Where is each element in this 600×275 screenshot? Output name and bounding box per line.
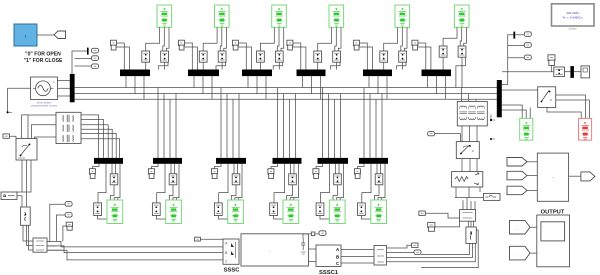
label SSSC1 [319, 270, 339, 275]
wire to tag Ib [56, 215, 65, 241]
terminator tick [87, 48, 89, 55]
bus bar B1-1 [120, 70, 150, 77]
switch block SW2 [456, 142, 479, 159]
T1 winding row 2 [63, 125, 74, 132]
wires B2-5 to scope [320, 164, 343, 203]
goto tag L1 [548, 55, 555, 72]
wire T1 out 5 [81, 133, 116, 158]
wires breakers to bus bar [203, 62, 225, 69]
mux block MX3 [460, 210, 476, 222]
wires SC1 to breakers [146, 27, 169, 51]
ground node [7, 111, 13, 113]
stubs B1-1 to bus lines [126, 76, 144, 99]
wires to green scope right [502, 105, 530, 118]
scope block SC2 (top) [215, 5, 230, 27]
scope block SB1 (bottom) [107, 200, 123, 224]
goto tag OUT [581, 172, 595, 181]
svg-text:B: B [336, 254, 339, 259]
wire converter to SSSC1 a [309, 248, 317, 250]
tag RS2 [428, 221, 460, 231]
drops bus to B2-2 [158, 88, 176, 158]
wire RLC right link [455, 197, 484, 199]
demux block DM1 [33, 238, 47, 252]
breaker Q2b [218, 51, 226, 62]
wire B7 to SW3 [502, 89, 538, 91]
drops bus to B2-3 [221, 88, 239, 158]
transformer T2 body [457, 101, 487, 126]
ground node right [490, 115, 495, 122]
wires T2 top to bus [462, 88, 477, 102]
series RLC branch left [1, 192, 17, 199]
breaker QB1 [94, 203, 108, 219]
wire source left to ground [8, 88, 31, 111]
long wire to measurement 4 [421, 230, 478, 268]
measurement block M1 [21, 207, 31, 225]
goto tag M2t [414, 250, 421, 255]
goto tag M1t [412, 243, 418, 247]
breaker QL4 [289, 164, 297, 185]
wires SC5 to breakers [384, 27, 407, 51]
breaker Q4b [333, 51, 341, 62]
tag under B2-6 [354, 164, 364, 179]
wire T1 out 4 [81, 129, 112, 158]
wire M1 down B [27, 225, 34, 245]
bus bar B1-4 [297, 70, 326, 77]
switch block SW3 [538, 87, 556, 108]
series RLC branch right [484, 193, 501, 200]
From tag F1 [510, 220, 531, 234]
svg-text:C: C [225, 260, 228, 264]
wire node to tag [315, 233, 319, 235]
breaker QR1 [554, 67, 571, 77]
tag under B2-2 [148, 164, 158, 179]
bus bar B2-1 [94, 158, 123, 164]
wire selector to tag [569, 175, 581, 177]
wire bus B to SSSC [47, 246, 223, 253]
wires MX3 up [463, 198, 475, 210]
breaker Q6b [458, 46, 466, 57]
tag RS1 [419, 211, 460, 218]
scope block SB4 (bottom) [283, 200, 299, 224]
wire T1 out 6 [81, 139, 120, 158]
ground node right 2 [490, 138, 495, 140]
long wire to measurement 1 [421, 243, 469, 254]
wires SC2 to breakers [203, 27, 226, 51]
wire bus C to SSSC [47, 250, 223, 260]
wire T1 out 2 [81, 120, 104, 158]
scope block SB2 (bottom) [166, 200, 182, 224]
goto tag Ib [65, 213, 72, 218]
output scope block [537, 215, 570, 267]
wire SSSC1 B [341, 256, 374, 258]
goto tag Vb [92, 56, 99, 61]
goto tag Ic [66, 222, 72, 230]
terminator bar right [570, 66, 574, 78]
breaker Q6a [439, 46, 447, 57]
mux block MX2 [374, 246, 387, 266]
wire tag T2 to bus [184, 43, 197, 70]
From tag G1 [507, 158, 537, 167]
T2 winding col 1 [459, 106, 467, 120]
wire to tag Ia [50, 204, 65, 241]
display label [569, 26, 578, 30]
breaker Q5a [380, 51, 388, 62]
wire F1 to scope [530, 226, 537, 228]
drops bus to B2-5 [323, 88, 341, 158]
breaker QL1 [110, 164, 118, 185]
wire tag T3 to bus [238, 43, 251, 70]
wire M1 down C [29, 225, 33, 250]
wires resistor block down [456, 187, 480, 198]
stubs B1-6 to bus lines [428, 76, 446, 99]
wire B7 up branch [502, 35, 511, 85]
wire BRK-L down B [26, 160, 28, 207]
wire T1 out 1 [81, 115, 99, 158]
bus bar B1-3 [242, 70, 272, 77]
svg-text:+: + [53, 80, 55, 84]
scope red right [579, 118, 592, 140]
wire source phase A [58, 80, 71, 82]
wire MX2 to tag1 [387, 245, 412, 248]
svg-text:-: - [60, 34, 61, 38]
drops bus to B2-6 [364, 88, 382, 158]
scope block SC1 (top) [157, 5, 172, 27]
scope block SB5 (bottom) [329, 200, 345, 224]
long wire to measurement 2 [387, 243, 473, 257]
wire F2 to scope [530, 252, 537, 254]
wires B2-2 to scope [157, 164, 179, 203]
wire tag T4 to bus [293, 43, 306, 70]
breaker Q3a [257, 51, 265, 62]
goto tag T3 [232, 40, 238, 50]
load block right [574, 66, 590, 78]
stubs B1-2 to bus lines [194, 76, 212, 99]
terminator tick right [511, 32, 516, 39]
transformer T1 body [56, 112, 81, 143]
goto tag T4 [287, 40, 293, 50]
svg-text:Te + -0.04862 n: Te + -0.04862 n [562, 15, 583, 19]
wire tag T5 to bus [359, 43, 372, 70]
wires SC3 to breakers [260, 27, 283, 51]
svg-text:o: o [472, 149, 474, 153]
svg-text:SSSC: SSSC [224, 267, 241, 273]
wire bus A to SSSC [47, 241, 223, 247]
tag under B2-4 [268, 164, 278, 179]
wire B1 to tag Vb [75, 58, 92, 60]
wire RLC to M1 [17, 196, 22, 207]
tag under B2-1 [89, 164, 99, 179]
drops bus to B2-4 [278, 88, 296, 158]
wires breakers to bus bar [384, 62, 406, 69]
SSSC1 block [316, 245, 341, 267]
breaker Q3b [275, 51, 283, 62]
goto tag mid-right [428, 132, 461, 142]
bus line phase B [75, 93, 497, 95]
source label [31, 100, 58, 107]
scope block SB3 (bottom) [228, 200, 244, 224]
breaker QB3 [214, 203, 228, 219]
breaker QL2 [169, 164, 177, 185]
stubs B1-5 to bus lines [369, 76, 387, 99]
breaker QB6 [358, 203, 372, 219]
wire tag T1 to bus [116, 43, 129, 70]
wires B2-6 to scope [362, 164, 385, 203]
wires breakers to bus bar [260, 62, 282, 69]
wire source phase B [58, 87, 71, 89]
goto tag R1t [515, 32, 531, 37]
goto tag Vc [92, 64, 99, 69]
T1 winding row 3 [63, 135, 74, 142]
scope selector block [537, 153, 568, 201]
breaker QL5 [334, 164, 342, 185]
goto tag R2t [508, 43, 532, 48]
wires SC4 to breakers [318, 27, 341, 51]
wire T1 tap [22, 115, 29, 139]
wires SC6 to breakers [443, 27, 466, 46]
wire SSSC1 A [341, 249, 374, 251]
tag under B2-3 [211, 164, 221, 179]
wire SSSC1 C [341, 262, 374, 264]
svg-text:SSSC1: SSSC1 [319, 270, 339, 275]
bus line phase C [75, 98, 497, 100]
breaker Q4a [314, 51, 322, 62]
three-phase source U1 [31, 77, 58, 100]
wire M1 down A [23, 225, 33, 241]
wire constant to goto tag [37, 34, 54, 36]
svg-text:OUTPUT: OUTPUT [541, 209, 565, 215]
bus bar B7 [497, 80, 502, 117]
bus bar B2-6 [359, 158, 388, 164]
wires B2-3 to scope [219, 164, 242, 203]
display block [552, 4, 595, 26]
tag under B2-5 [313, 164, 323, 179]
three-phase breaker BRK-L [16, 139, 37, 161]
goto tag R3t [508, 55, 532, 60]
constant block (breaker command) [14, 24, 37, 46]
bus bar B2-5 [318, 158, 349, 164]
wires breakers to bus bar [146, 62, 168, 69]
breaker Q1a [142, 51, 150, 62]
goto tag DC [319, 231, 326, 236]
stubs B1-4 to bus lines [303, 76, 321, 99]
wire converter to SSSC1 b [309, 261, 317, 263]
measurement block M2 [466, 227, 476, 243]
node square [303, 232, 315, 238]
scope block SC6 (top) [454, 5, 469, 27]
wire source phase C [58, 95, 71, 97]
goto tag T1 [110, 40, 116, 50]
label OUTPUT [541, 209, 565, 215]
svg-text:--: -- [552, 176, 554, 180]
scope block SC5 (top) [395, 5, 410, 27]
SSSC block [223, 239, 239, 264]
wires breakers to bus bar [443, 57, 465, 87]
bus bar B1-6 [422, 70, 452, 77]
goto tag Va [92, 48, 99, 53]
svg-text:-: - [516, 252, 517, 256]
stubs B1-3 to bus lines [248, 76, 266, 99]
breaker QL3 [232, 164, 240, 185]
T1 winding row 1 [63, 115, 74, 122]
goto tag A [54, 31, 66, 39]
scope block SB6 (bottom) [371, 200, 387, 224]
wires to red scope [547, 95, 589, 118]
breaker QB4 [270, 203, 284, 219]
wires transformer T2 down to switch [462, 126, 477, 142]
wires breakers to bus bar [318, 62, 340, 69]
bus bar B2-4 [273, 158, 302, 164]
From tag F2 [510, 246, 531, 260]
wire bus to T1 in A [28, 115, 56, 139]
wires B2-1 to scope [98, 164, 120, 203]
From tag G2 [507, 171, 537, 180]
breaker QL6 [375, 164, 383, 185]
breaker Q2a [199, 51, 207, 62]
goto tag T5 [353, 40, 359, 50]
wire MX2 to tag2 [387, 252, 415, 254]
wire bus to T1 in B [31, 125, 56, 139]
tag to breaker BRK-L [3, 134, 16, 141]
T2 winding col 3 [477, 106, 485, 120]
scope green right [520, 118, 533, 140]
wire B1 to terminator [72, 51, 87, 74]
tag to SSSC top [195, 237, 226, 241]
bus bar B2-3 [216, 158, 246, 164]
breaker Q1b [161, 51, 169, 62]
goto tag T2 [178, 40, 184, 50]
scope block SC3 (top) [272, 5, 287, 27]
bus bar B1-2 [188, 70, 219, 77]
wire demux junction [47, 241, 63, 250]
svg-text:"0" FOR OPEN: "0" FOR OPEN [25, 52, 61, 58]
goto tag Ia [65, 202, 72, 207]
svg-text:o: o [550, 98, 552, 102]
wire tag T6 to bus [418, 43, 431, 70]
wires switch to resistor [462, 159, 477, 172]
bus bar B1 [70, 74, 75, 102]
wire B1 to tag Vc [75, 65, 92, 67]
breaker Q5b [399, 51, 407, 62]
T2 winding col 2 [468, 106, 476, 120]
converter block (large) [241, 234, 309, 266]
breaker QB2 [152, 203, 166, 219]
long wire to measurement 3 [387, 243, 476, 261]
wire bus to T1 in C [35, 137, 57, 139]
bus bar B1-5 [363, 70, 392, 77]
wires B2-4 to scope [274, 164, 299, 203]
resistor load block [452, 172, 483, 187]
svg-text:...: ... [516, 227, 519, 231]
bus line phase A [75, 87, 497, 89]
breaker QB5 [316, 203, 330, 219]
label SSSC [224, 267, 241, 273]
wire B7 to load cluster [502, 71, 554, 73]
bus bar B2-2 [153, 158, 182, 164]
goto tag T6 [412, 40, 418, 50]
scope block SC4 (top) [329, 5, 344, 27]
svg-text:"1" FOR CLOSE: "1" FOR CLOSE [24, 58, 63, 64]
wire T1 out 3 [81, 125, 108, 158]
svg-text:programmable source: programmable source [31, 103, 58, 107]
wire BRK-L down C [16, 160, 31, 192]
From tag G3 [507, 186, 537, 195]
svg-text:...: ... [268, 249, 271, 253]
wires M2 to MX3 [468, 221, 473, 227]
DC capacitor [301, 238, 306, 254]
svg-text:display: display [569, 26, 578, 30]
annotation OPEN/CLOSE [24, 52, 63, 64]
wire to tag Ic [63, 226, 66, 241]
wire BRK-L down A [21, 160, 23, 192]
